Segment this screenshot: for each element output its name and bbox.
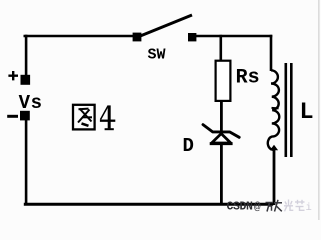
inductor core line inner <box>284 63 287 157</box>
label plus <box>8 71 18 80</box>
watermark glyph guang <box>284 200 293 212</box>
wire left vertical upper <box>25 35 28 76</box>
zener diode D triangle <box>212 134 231 143</box>
wire inductor to bottom <box>273 148 276 205</box>
wire Rs to diode <box>220 100 223 134</box>
switch SW blade <box>139 15 192 37</box>
battery Vs negative terminal <box>20 111 30 121</box>
switch SW left contact <box>133 33 142 42</box>
page right border <box>318 0 320 220</box>
battery Vs positive terminal <box>21 75 31 85</box>
watermark glyph wan <box>266 203 274 212</box>
label minus <box>7 115 18 118</box>
wire diode to bottom <box>220 143 223 205</box>
zener diode D cathode bar <box>203 125 239 138</box>
wire inductor branch upper <box>270 35 273 71</box>
inductor coil right stub <box>272 107 279 110</box>
switch SW right contact <box>188 33 196 41</box>
inductor L coil <box>268 70 280 149</box>
svg-text:CSDN: CSDN <box>227 201 254 214</box>
svg-text:L: L <box>300 99 314 126</box>
wire bottom <box>24 203 273 206</box>
label figure 4 digit <box>100 105 115 129</box>
watermark glyph zhang <box>274 200 282 212</box>
zener diode D anode bar <box>210 142 233 145</box>
wire left vertical lower <box>25 120 28 206</box>
svg-text:Rs: Rs <box>236 67 260 90</box>
inductor current arrow <box>270 145 278 150</box>
wire Rs branch upper <box>220 35 223 62</box>
svg-text:Vs: Vs <box>19 92 43 114</box>
wire top right segment <box>195 35 272 38</box>
inductor core line outer <box>290 63 293 157</box>
svg-text:SW: SW <box>148 47 166 64</box>
svg-text:D: D <box>183 135 194 157</box>
watermark glyph mang <box>295 200 305 211</box>
resistor Rs body <box>216 61 231 101</box>
label figure 4 box (tu character) <box>73 105 95 130</box>
svg-text:@: @ <box>254 202 261 214</box>
svg-text:i: i <box>306 202 312 214</box>
wire top left segment <box>24 35 139 38</box>
